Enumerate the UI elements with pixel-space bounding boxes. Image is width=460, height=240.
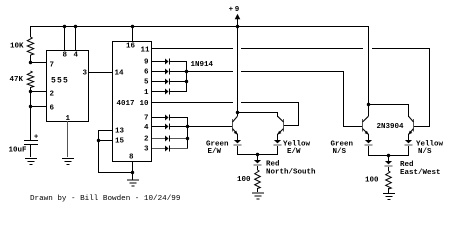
op... timer IC U1 555 box <box>46 50 47 122</box>
wire pins 13/15 vertical <box>98 130 99 172</box>
wire Red E/W LED to resistor <box>388 167 389 171</box>
svg-text:16: 16 <box>126 43 136 51</box>
svg-text:8: 8 <box>129 154 134 162</box>
svg-text:100: 100 <box>237 176 251 184</box>
wire to Yellow E/W base <box>284 125 299 126</box>
node pin4 rail junction <box>74 25 77 28</box>
wire 4017 pin 5 to diode D3 <box>152 81 165 82</box>
wire OR bus vertical (upper group) <box>186 61 187 92</box>
node OR bus pin6 row <box>185 70 188 73</box>
transistor Q3 Green N/S 2N3904 <box>362 119 363 131</box>
LED Red North/South <box>254 160 261 163</box>
transistor Q1 Green E/W 2N3904 <box>232 119 233 131</box>
wire D1 cathode to OR node <box>170 61 187 62</box>
svg-text:47K: 47K <box>10 76 24 84</box>
wire 13/15 to pin 8 ground net <box>98 172 132 173</box>
wire pin 11 drop <box>429 48 430 126</box>
wire lower OR output to Green E/W base <box>187 126 232 127</box>
node C junction pin6/cap <box>29 105 32 108</box>
wire D7 cathode to OR node <box>170 138 188 139</box>
svg-text:7: 7 <box>50 62 55 70</box>
node pin16 rail junction <box>131 25 134 28</box>
wire Yellow E/W collector drop <box>277 112 278 117</box>
wire center tap to Red E/W LED <box>388 155 389 161</box>
wire +9 vertical feed <box>237 18 238 113</box>
wire upper OR output after +9 crossing <box>241 71 343 72</box>
wire 4017 pin 15 stub <box>98 140 112 141</box>
supply arrow +9 <box>235 14 241 19</box>
wire Yellow E/W LED to emitter rail <box>277 146 278 155</box>
node B junction 47K/pin2 <box>29 90 32 93</box>
svg-text:2: 2 <box>144 136 149 144</box>
svg-text:+: + <box>229 6 234 14</box>
wire top +9 supply rail <box>30 26 368 27</box>
svg-text:3: 3 <box>144 146 149 154</box>
diode D4 1N914 <box>165 89 169 95</box>
wire node A to 555 pin 7 <box>30 62 47 63</box>
wire pin 10 drop <box>298 102 299 125</box>
svg-text:North/South: North/South <box>266 169 316 177</box>
svg-text:E/W: E/W <box>287 148 301 156</box>
svg-text:East/West: East/West <box>400 169 441 177</box>
diode D1 1N914 <box>165 59 169 65</box>
wire 4017 pin 6 to diode D2 <box>152 71 165 72</box>
wire 4017 pin 7 to diode D5 <box>152 117 165 118</box>
svg-text:4017: 4017 <box>117 100 135 108</box>
resistor 100 (left) <box>255 170 261 189</box>
node OR bus pin2 row <box>186 137 189 140</box>
svg-text:10uF: 10uF <box>9 147 28 155</box>
wire OR bus vertical (lower group) <box>187 117 188 149</box>
wire 555 pin 4 to rail <box>75 26 76 50</box>
ground (Red North/South) <box>252 193 264 194</box>
wire center tap to Red N/S LED <box>257 154 258 160</box>
capacitor 10uF <box>24 140 38 141</box>
resistor 10K <box>27 37 33 55</box>
resistor 47K <box>27 71 33 88</box>
ground (4017 pin 8) <box>127 180 139 181</box>
wire node B to 555 pin 2 <box>30 91 47 92</box>
wire D3 cathode to OR node <box>170 81 187 82</box>
svg-text:7: 7 <box>144 115 149 123</box>
svg-text:3: 3 <box>83 70 88 78</box>
node pin8 rail junction <box>63 25 66 28</box>
wire 4017 pin 1 to diode D4 <box>152 91 165 92</box>
node OR bus pin4 row <box>186 125 189 128</box>
wire left emitter rail <box>237 154 278 155</box>
svg-text:E/W: E/W <box>208 148 222 156</box>
transistor Q2 Yellow E/W 2N3904 <box>283 119 284 131</box>
wire 4017 pin 9 to diode D1 <box>152 61 165 62</box>
wire left rail top segment <box>30 26 31 37</box>
svg-text:555: 555 <box>51 77 69 86</box>
wire node C to 555 pin 6 <box>30 106 47 107</box>
wire D8 cathode to OR node <box>170 148 188 149</box>
node +9 to left collector rail <box>236 111 239 114</box>
svg-text:6: 6 <box>50 105 55 113</box>
svg-text:14: 14 <box>115 70 125 78</box>
svg-text:11: 11 <box>141 47 151 55</box>
LED Green E/W <box>234 140 241 143</box>
wire pin 11 row after right branch crossing <box>372 48 430 49</box>
ground (capacitor) <box>25 158 37 159</box>
wire left collector rail <box>237 112 278 113</box>
diode D6 1N914 <box>165 124 169 130</box>
wire node C to capacitor <box>30 106 31 140</box>
wire 4017 pin 13 stub <box>98 130 112 131</box>
wire 47K to node B <box>30 87 31 92</box>
counter IC U2 4017 box <box>112 41 113 162</box>
wire D2 cathode to OR node <box>170 71 187 72</box>
wire to Yellow N/S base <box>414 126 430 127</box>
LED Yellow E/W <box>274 140 281 143</box>
wire 4017 pin 8 down <box>132 161 133 180</box>
wire pin 10 row after +9 crossing <box>241 102 299 103</box>
svg-text:1N914: 1N914 <box>191 61 214 69</box>
wire upper OR output drop <box>343 71 344 126</box>
wire 4017 pin 2 to diode D7 <box>152 138 165 139</box>
wire Green E/W LED to emitter rail <box>237 146 238 155</box>
node left emitter rail center <box>256 153 259 156</box>
node right branch to right collector rail <box>367 103 370 106</box>
wire 10K to node A <box>30 55 31 63</box>
wire resistor to ground (left) <box>257 188 258 192</box>
wire D4 cathode to OR node <box>170 91 187 92</box>
wire to Green N/S base <box>343 126 362 127</box>
node pin15 junction <box>97 139 100 142</box>
ground (Red East/West) <box>383 193 395 194</box>
LED Yellow N/S <box>405 140 412 143</box>
svg-text:10K: 10K <box>10 43 24 51</box>
wire D5 cathode to OR node <box>170 117 188 118</box>
svg-text:2: 2 <box>50 91 55 99</box>
wire D6 cathode to OR node <box>170 126 188 127</box>
svg-text:1: 1 <box>144 89 149 97</box>
svg-text:N/S: N/S <box>418 148 432 156</box>
wire 555 pin 8 to rail <box>64 26 65 50</box>
wire pin 11 row after +9 crossing <box>241 48 363 49</box>
node A junction 10K/47K/pin7 <box>29 61 32 64</box>
svg-text:100: 100 <box>365 177 379 185</box>
svg-text:10: 10 <box>140 100 150 108</box>
resistor 100 (right) <box>386 171 392 189</box>
svg-text:Drawn by - Bill Bowden - 10/24: Drawn by - Bill Bowden - 10/24/99 <box>30 195 181 203</box>
LED Green N/S <box>365 140 372 143</box>
diode D2 1N914 <box>165 69 169 75</box>
diode D3 1N914 <box>165 79 169 85</box>
wire node B to node C <box>30 91 31 106</box>
svg-text:4: 4 <box>144 124 149 132</box>
wire 4017 pin 16 to rail <box>132 26 133 41</box>
transistor Q4 Yellow N/S 2N3904 <box>413 119 414 131</box>
wire 4017 pin 10 toward Yellow E/W <box>152 102 233 103</box>
diode D8 1N914 <box>165 146 169 152</box>
wire right branch of rail down <box>368 26 369 104</box>
svg-text:15: 15 <box>115 138 125 146</box>
node right emitter rail center <box>387 154 390 157</box>
wire capacitor to ground <box>30 145 31 157</box>
ground (555 pin 1) <box>62 158 74 159</box>
svg-text:6: 6 <box>144 69 149 77</box>
wire Yellow N/S LED to emitter rail <box>408 146 409 156</box>
node OR bus pin5 row <box>185 80 188 83</box>
svg-text:+: + <box>34 134 38 142</box>
wire 555 pin 3 to 4017 pin 14 <box>88 72 112 73</box>
wire right emitter rail <box>368 155 409 156</box>
wire 4017 pin 11 toward Yellow N/S <box>152 48 233 49</box>
svg-text:5: 5 <box>144 79 149 87</box>
svg-text:Red: Red <box>266 161 280 169</box>
svg-text:4: 4 <box>74 52 79 60</box>
svg-text:N/S: N/S <box>333 148 347 156</box>
wire upper OR output toward Green N/S base <box>187 71 233 72</box>
svg-text:2N3904: 2N3904 <box>377 123 405 131</box>
wire 555 pin 1 to ground <box>67 121 68 157</box>
LED Red East/West <box>385 161 392 164</box>
wire Red LED to resistor <box>257 166 258 170</box>
svg-text:8: 8 <box>63 52 68 60</box>
svg-text:Red: Red <box>400 161 414 169</box>
wire 4017 pin 4 to diode D6 <box>152 126 165 127</box>
svg-text:9: 9 <box>144 59 149 67</box>
node +9 on top rail <box>236 25 239 28</box>
svg-text:9: 9 <box>235 6 240 14</box>
wire right collector rail <box>368 104 409 105</box>
wire 4017 pin 3 to diode D8 <box>152 148 165 149</box>
diode D5 1N914 <box>165 115 169 121</box>
wire Green N/S LED to emitter rail <box>368 146 369 155</box>
node pin8 ground junction <box>131 171 134 174</box>
wire Yellow N/S collector drop <box>408 104 409 117</box>
wire resistor to ground (right) <box>388 188 389 193</box>
diode D7 1N914 <box>165 136 169 142</box>
svg-text:13: 13 <box>115 128 125 136</box>
